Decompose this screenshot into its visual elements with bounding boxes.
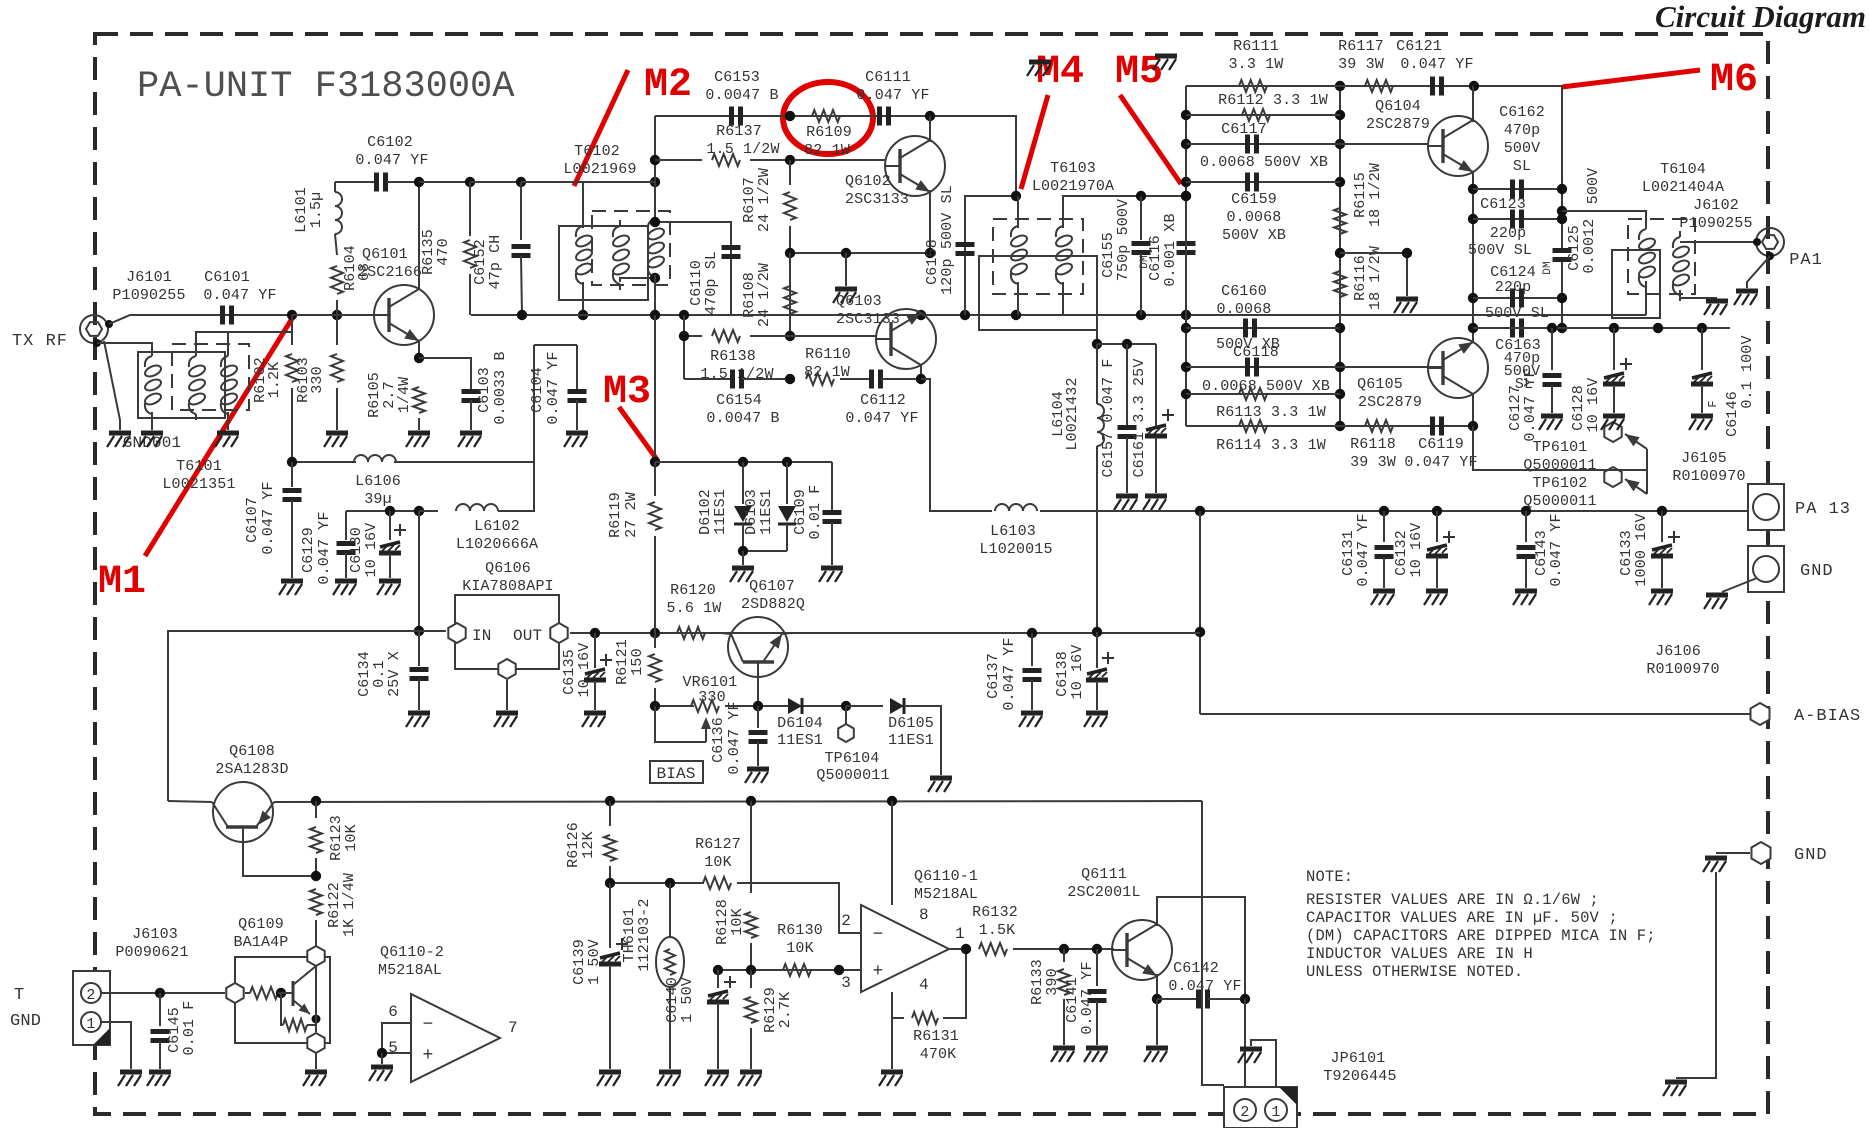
svg-text:C6161 3.3 25V: C6161 3.3 25V	[1131, 359, 1148, 478]
svg-text:5: 5	[388, 1039, 398, 1057]
svg-text:L6103: L6103	[990, 523, 1036, 540]
capacitor C6124 row	[1473, 297, 1562, 299]
svg-text:6: 6	[388, 1003, 398, 1021]
plus C6132	[1443, 531, 1455, 543]
label L6102 L1020666A	[474, 518, 520, 535]
label GND001	[123, 434, 182, 452]
capacitor C6160	[1246, 319, 1255, 338]
T6103 winding 1	[1009, 220, 1028, 290]
plus C6135	[600, 654, 612, 666]
wire Q6108 base stem	[243, 827, 316, 876]
connector J6101 TX RF	[80, 315, 108, 343]
svg-text:0.047 YF: 0.047 YF	[203, 287, 276, 304]
wire L6106 right to column x534	[394, 345, 534, 462]
svg-text:0.047 YF: 0.047 YF	[845, 410, 918, 427]
label C6132 10 16V	[1393, 530, 1410, 576]
capacitor C6101	[223, 306, 232, 325]
JP pin 1 circle	[1265, 1099, 1287, 1121]
capacitor C6133	[1657, 506, 1667, 516]
ground J6103	[118, 1072, 142, 1086]
label C6145 0.01 F	[166, 1007, 183, 1053]
wire T6102 w2 bottom join	[620, 278, 655, 282]
label C6121 0.047 YF	[1396, 38, 1442, 55]
ground GND001 left	[107, 433, 131, 447]
T6102 winding 3	[646, 213, 665, 283]
svg-text:1.5µ: 1.5µ	[308, 192, 325, 229]
ground stub mid	[845, 253, 847, 286]
svg-text:L1020015: L1020015	[979, 541, 1052, 558]
label C6129 0.047 YF	[300, 527, 317, 573]
ground TH6101	[657, 1072, 681, 1086]
diode D6104	[788, 698, 802, 714]
label R6117 39 3W	[1338, 38, 1384, 55]
wire T6103 w1 leads	[1017, 196, 1019, 228]
svg-text:220p: 220p	[1495, 279, 1532, 296]
ground PA1	[1734, 291, 1758, 305]
node mid rail w3	[650, 310, 660, 320]
node rail R6128	[746, 796, 756, 806]
wire Q6107 left lead	[721, 633, 731, 634]
svg-text:T6101: T6101	[176, 458, 222, 475]
svg-text:R6111: R6111	[1233, 38, 1279, 55]
BIAS box	[650, 761, 703, 783]
label C6118	[1233, 344, 1279, 361]
label R6118 39 3W	[1350, 436, 1396, 453]
row R6117 C6121	[1340, 85, 1562, 87]
label pin6	[388, 1003, 398, 1021]
ground C6146	[1689, 416, 1713, 430]
T6102 winding 2	[611, 220, 630, 290]
svg-text:0.047 YF: 0.047 YF	[1168, 978, 1241, 995]
svg-text:4: 4	[919, 976, 929, 994]
ground D6105	[928, 778, 952, 792]
transformer T6104 box	[1612, 250, 1660, 318]
svg-text:470K: 470K	[920, 1046, 957, 1063]
pin Q6109 top	[307, 946, 324, 966]
svg-text:C6159: C6159	[1231, 191, 1277, 208]
svg-text:0.0047 B: 0.0047 B	[706, 410, 779, 427]
svg-text:TX RF: TX RF	[12, 332, 68, 351]
connector A-BIAS hexagon	[1751, 703, 1770, 725]
label R6138 1.5 1/2W	[710, 348, 756, 365]
ground opamp1	[879, 1072, 903, 1086]
label C6104 0.047 YF	[529, 367, 546, 413]
svg-text:0.047 YF: 0.047 YF	[856, 87, 929, 104]
capacitor C6112	[840, 378, 871, 380]
wire R6137 row	[655, 159, 702, 161]
wire opamp1 pin4 ground	[891, 992, 893, 1069]
wire Q6111 emitter	[1156, 974, 1158, 999]
svg-text:UNLESS OTHERWISE NOTED.: UNLESS OTHERWISE NOTED.	[1306, 963, 1523, 981]
svg-text:0.01 F: 0.01 F	[181, 1001, 198, 1056]
capacitor C6104 column	[576, 345, 578, 391]
resistor R6107	[789, 160, 791, 185]
svg-text:GND001: GND001	[123, 434, 182, 452]
node right bank 86	[1335, 81, 1345, 91]
label GND2	[1794, 846, 1828, 865]
ground regulator	[494, 713, 518, 727]
node C6130	[385, 506, 395, 516]
wire Q6104 base row	[1340, 143, 1428, 145]
wire TX RF to T6101	[97, 343, 152, 352]
label Q6109 BA1A4P	[238, 916, 284, 933]
label D6105 11ES1	[888, 715, 934, 732]
svg-text:C6157 0.047 F: C6157 0.047 F	[1100, 359, 1117, 478]
label C6141 0.047 YF	[1064, 977, 1081, 1023]
svg-text:TP6102: TP6102	[1533, 475, 1588, 492]
svg-text:0.047 YF: 0.047 YF	[1404, 454, 1477, 471]
label C6160 0.0068 500V XB	[1221, 283, 1267, 300]
capacitor C6153	[732, 107, 741, 126]
label minus Q6110-2	[423, 1015, 434, 1035]
label T6102 L0021969	[574, 143, 620, 160]
capacitor C6119	[1433, 417, 1442, 436]
capacitor C6103	[462, 392, 481, 401]
wire T6104 w2 bottom to ground	[1680, 290, 1717, 298]
label R6121 150	[614, 639, 631, 685]
svg-text:2SC3133: 2SC3133	[845, 191, 909, 208]
label C6142 0.047 YF	[1173, 960, 1219, 977]
label C6110 470p SL	[688, 260, 705, 306]
label GND left	[10, 1012, 41, 1031]
ground C6157	[1114, 496, 1138, 510]
wire L6103 to PA13 rail	[1040, 510, 1200, 512]
label Q6102 2SC3133	[845, 173, 891, 190]
svg-text:C6137: C6137	[985, 653, 1002, 699]
resistor R6130	[783, 964, 811, 976]
wire Q6102 emitter lead	[929, 190, 931, 253]
wire T6101 bottoms to ground	[151, 412, 153, 430]
wire IN lead	[419, 630, 446, 632]
svg-text:P1090255: P1090255	[112, 287, 185, 304]
left bank column	[1185, 86, 1187, 426]
svg-text:500V: 500V	[1504, 140, 1541, 157]
transistor Q6105	[1428, 338, 1488, 398]
svg-text:BIAS: BIAS	[656, 765, 695, 783]
node TP6104	[841, 701, 851, 711]
label pin8	[919, 906, 929, 924]
ground C6145	[147, 1072, 171, 1086]
svg-text:0.0068 500V XB: 0.0068 500V XB	[1202, 378, 1330, 395]
svg-text:RESISTER VALUES ARE IN Ω.1/6W: RESISTER VALUES ARE IN Ω.1/6W ;	[1306, 891, 1599, 909]
wire opamp1 supply	[891, 801, 893, 905]
wire rail to R6135	[419, 181, 470, 183]
node base row Q6103	[785, 331, 795, 341]
wire Q6101 emitter node	[418, 341, 420, 358]
svg-text:1 50V: 1 50V	[586, 939, 603, 985]
svg-text:Q6105: Q6105	[1357, 376, 1403, 393]
node 8V rail C6138	[1092, 627, 1102, 637]
svg-text:0.047 YF: 0.047 YF	[1001, 637, 1018, 710]
svg-text:+: +	[873, 962, 884, 982]
resistor R6119	[654, 462, 656, 496]
red annotation M5 line	[1120, 95, 1181, 184]
label D6103 11ES1	[743, 489, 760, 535]
svg-text:D6104: D6104	[777, 715, 823, 732]
red annotation M6 label	[1710, 58, 1758, 103]
svg-text:PA-UNIT F3183000A: PA-UNIT F3183000A	[137, 66, 515, 108]
T6101 winding 2	[187, 350, 206, 420]
label C6153 0.0047 B	[714, 69, 760, 86]
svg-text:0.0068: 0.0068	[1217, 301, 1272, 318]
capacitor C6116 column	[1185, 196, 1187, 240]
label J6106 R0100970	[1655, 643, 1701, 660]
svg-text:39 3W: 39 3W	[1350, 454, 1396, 471]
label C6158 120p 500V SL	[924, 239, 941, 285]
node 1200 632	[1195, 627, 1205, 637]
label R6129 2.7K	[762, 987, 779, 1033]
wire R6128 column top	[750, 801, 752, 893]
node C6157 top	[1122, 339, 1132, 349]
svg-text:10K: 10K	[704, 854, 731, 871]
ground GND2	[1703, 858, 1727, 872]
label R6127 10K	[695, 836, 741, 853]
svg-text:Q6110-2: Q6110-2	[380, 944, 444, 961]
svg-text:Q6111: Q6111	[1081, 866, 1127, 883]
svg-text:C6119: C6119	[1418, 436, 1464, 453]
wire L6104 cap row	[1097, 343, 1156, 345]
capacitor C6111	[880, 107, 889, 126]
node emitter C6142	[1152, 994, 1162, 1004]
svg-text:R6127: R6127	[695, 836, 741, 853]
wire J6103 pin2 row	[101, 992, 225, 994]
svg-text:39µ: 39µ	[364, 491, 391, 508]
svg-text:M5218AL: M5218AL	[914, 886, 978, 903]
label D6102 11ES1	[697, 489, 714, 535]
T6104 winding 1	[1637, 223, 1656, 293]
resistor R6110	[806, 373, 834, 385]
svg-text:2SC3133: 2SC3133	[836, 311, 900, 328]
row 253 to ground stub	[1340, 253, 1407, 296]
resistor R6112	[1242, 109, 1270, 121]
svg-text:SL: SL	[1513, 158, 1531, 175]
capacitor C6127	[1551, 328, 1553, 370]
wire mid rail y315	[471, 314, 1646, 316]
label DM mark C6116	[1139, 255, 1151, 269]
svg-text:R6137: R6137	[716, 123, 762, 140]
row C6160	[1186, 327, 1340, 329]
label Q6110-1 M5218AL	[914, 868, 978, 885]
svg-text:Circuit Diagram: Circuit Diagram	[1655, 0, 1866, 34]
Q6109 internal resistor	[245, 992, 250, 994]
svg-text:R0100970: R0100970	[1672, 468, 1745, 485]
svg-text:L6106: L6106	[355, 473, 401, 490]
svg-text:Q6109: Q6109	[238, 916, 284, 933]
label C6154 0.0047 B	[716, 392, 762, 409]
node right bank 367	[1335, 362, 1345, 372]
svg-text:470p SL: 470p SL	[703, 251, 720, 315]
pin IN hexagon	[448, 623, 465, 643]
svg-text:R6120: R6120	[670, 582, 716, 599]
ground C6141	[1084, 1048, 1108, 1062]
ground C6129	[333, 581, 357, 595]
wire R6132 to Q6111	[1013, 948, 1114, 950]
ground C6133	[1649, 591, 1673, 605]
label R6137 1.5 1/2W	[716, 123, 762, 140]
transistor Q6101	[374, 285, 434, 345]
ground C6131	[1371, 591, 1395, 605]
label L6106 39u	[355, 473, 401, 490]
wire T6104 secondary to PA1	[1680, 241, 1756, 243]
ground right of R6116	[1394, 299, 1418, 313]
resistor R6133	[1063, 949, 1065, 962]
resistor R6116	[1334, 271, 1346, 297]
capacitor C6159	[1248, 173, 1257, 192]
label C6117	[1221, 121, 1267, 138]
label C6123 220p 500V SL	[1480, 196, 1526, 213]
red annotation M2 line	[574, 70, 628, 186]
capacitor C6158 column	[965, 196, 1016, 315]
label R6133 390	[1029, 959, 1046, 1005]
emitter row y253	[790, 252, 930, 254]
wire T6103 w2 leads	[1063, 196, 1186, 228]
label R6132 1.5K	[972, 904, 1018, 921]
resistor R6102	[291, 315, 293, 345]
row R6113	[1186, 393, 1340, 395]
pin OUT hexagon	[550, 623, 567, 643]
svg-text:BA1A4P: BA1A4P	[234, 934, 289, 951]
svg-text:T6103: T6103	[1050, 160, 1096, 177]
ground C6135	[582, 713, 606, 727]
node 1473 189	[1468, 184, 1478, 194]
label JP6101 T9206445	[1331, 1050, 1386, 1067]
label pin5	[388, 1039, 398, 1057]
node right bank 115	[1335, 110, 1345, 120]
svg-text:24 1/2W: 24 1/2W	[756, 168, 773, 232]
svg-text:Q6107: Q6107	[749, 578, 795, 595]
label R6119 27 2W	[607, 492, 624, 538]
svg-text:0.1 100V: 0.1 100V	[1739, 335, 1756, 408]
label C6143 0.047 YF	[1533, 530, 1550, 576]
svg-text:M5218AL: M5218AL	[378, 962, 442, 979]
wire VR to node	[725, 705, 846, 707]
testpoint TP6101 hexagon	[1604, 422, 1621, 442]
node collector rail	[414, 177, 424, 187]
node rail R6126	[605, 796, 615, 806]
svg-text:2SD882Q: 2SD882Q	[741, 596, 805, 613]
label Q6107 2SD882Q	[749, 578, 795, 595]
row C6118	[1186, 366, 1444, 368]
node mid rail x684	[679, 310, 689, 320]
inductor L6102	[419, 510, 438, 512]
red annotation M3 line	[619, 407, 658, 461]
label C6136 0.047 YF	[710, 717, 727, 763]
Q6109 internal transistor	[278, 992, 293, 994]
svg-text:L0021969: L0021969	[563, 161, 636, 178]
inductor L6101	[334, 182, 336, 192]
connector JP6101 box	[1224, 1087, 1297, 1128]
svg-text:470: 470	[435, 238, 452, 265]
transistor Q6102	[885, 136, 945, 196]
label J6101 P1090255	[126, 269, 172, 286]
svg-text:C6107: C6107	[244, 497, 261, 543]
J6103 pin 2 circle	[81, 983, 101, 1003]
capacitor C6109	[831, 462, 833, 512]
wire Q6105 collector down	[1472, 394, 1474, 426]
node 1562 328	[1557, 323, 1567, 333]
node right bank 253	[1335, 248, 1345, 258]
svg-text:D6105: D6105	[888, 715, 934, 732]
label C6161 3.3 25V	[1131, 359, 1148, 478]
label C6116 0.001 XB	[1147, 235, 1164, 281]
VR6101 wiper arrow	[705, 726, 707, 742]
svg-text:R6117: R6117	[1338, 38, 1384, 55]
label Q6103 2SC3133	[836, 293, 882, 310]
capacitor C6155	[1140, 196, 1142, 240]
svg-text:27 2W: 27 2W	[623, 492, 640, 538]
node row970 C6140	[713, 965, 723, 975]
resistor R6114	[1239, 420, 1267, 432]
svg-text:C6117: C6117	[1221, 121, 1267, 138]
red annotation M2 label	[644, 63, 692, 108]
label R6109 82 1W	[806, 124, 852, 141]
svg-text:11ES1: 11ES1	[777, 732, 823, 749]
node mid rail C6152	[517, 310, 527, 320]
ground under R6103	[324, 433, 348, 447]
capacitor C6102	[335, 181, 376, 183]
capacitor C6121	[1433, 77, 1442, 96]
ground R6129	[738, 1072, 762, 1086]
node C6116 top	[1181, 191, 1191, 201]
label C6133 1000 16V	[1618, 530, 1635, 576]
resistor R6126	[609, 801, 611, 826]
wire supply to Q6108 branch	[168, 631, 419, 801]
rail y801	[168, 801, 212, 802]
node mid rail C6155	[1136, 310, 1146, 320]
svg-text:2: 2	[841, 912, 851, 930]
node R6122 top	[311, 871, 321, 881]
label TP6104 Q5000011	[825, 750, 880, 767]
label C6163 470p 500V SL	[1495, 337, 1541, 354]
capacitor C6137	[1031, 633, 1033, 666]
wire Q6103 collector lead down	[920, 365, 922, 379]
inductor L6103	[995, 504, 1037, 511]
wire base row to Q6101	[292, 314, 374, 316]
svg-text:2: 2	[86, 987, 95, 1004]
label R6104 68	[342, 245, 359, 291]
svg-text:0.0012: 0.0012	[1581, 219, 1598, 274]
label R6108 24 1/2W	[741, 272, 758, 318]
right bank column	[1339, 86, 1341, 426]
transistor Q6103	[876, 309, 936, 369]
svg-text:470p: 470p	[1504, 122, 1541, 139]
label R6112 3.3 1W	[1218, 92, 1328, 109]
label C6134 0.1 25V X	[356, 651, 373, 697]
label pin7	[508, 1019, 518, 1037]
capacitor C6143	[1521, 506, 1531, 516]
svg-text:2SC2166: 2SC2166	[358, 264, 422, 281]
label C6109 0.01 F	[792, 489, 809, 535]
svg-text:C6162: C6162	[1499, 104, 1545, 121]
label plus Q6110-2	[423, 1046, 434, 1066]
ground under T6101 winding3	[215, 433, 239, 447]
svg-text:C6142: C6142	[1173, 960, 1219, 977]
label R6116 18 1/2W	[1352, 255, 1369, 301]
capacitor C6135	[594, 633, 596, 668]
wire C6129 column	[345, 511, 347, 540]
plus C6161	[1162, 409, 1174, 421]
label pin3	[841, 974, 851, 992]
rail to JP area	[1202, 801, 1224, 1085]
svg-text:500V SL: 500V SL	[1468, 242, 1532, 259]
resistor R6123	[315, 801, 317, 818]
label PA 13	[1795, 500, 1851, 519]
label A-BIAS	[1794, 707, 1861, 726]
svg-text:R6130: R6130	[777, 922, 823, 939]
node R6121 top	[650, 628, 660, 638]
label R6105 2.7 1/4W	[366, 372, 383, 418]
svg-text:0.0068: 0.0068	[1227, 209, 1282, 226]
